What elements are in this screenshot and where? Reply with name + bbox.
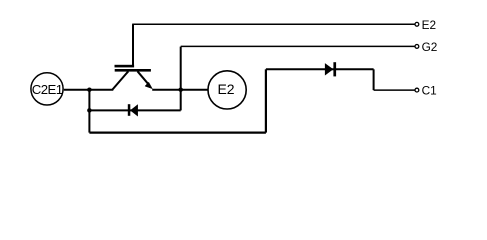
wire series diode branch bbox=[266, 68, 374, 70]
node C2E1 bbox=[31, 73, 63, 105]
wire C1 drop bbox=[373, 69, 375, 90]
wire E2 terminal lead bbox=[132, 23, 414, 25]
wire G2 vertical bbox=[180, 47, 182, 111]
svg-text:E2: E2 bbox=[217, 81, 234, 97]
wire collector segment bbox=[64, 89, 114, 91]
transistor Q2 IGBT emitter diagonal with arrow bbox=[138, 71, 153, 88]
diode D2 freewheel (cathode bar) bbox=[128, 104, 131, 116]
wire C1 terminal lead bbox=[374, 89, 415, 91]
node junction dot collector/left vertical bbox=[87, 87, 92, 92]
wire left vertical bbox=[88, 90, 90, 133]
transistor Q2 IGBT gate bar bbox=[115, 65, 135, 68]
svg-text:C2E1: C2E1 bbox=[32, 82, 63, 97]
transistor Q2 IGBT gate lead bbox=[132, 24, 134, 67]
terminal E2 bbox=[415, 18, 436, 32]
node junction dot diode wire bbox=[87, 108, 92, 113]
terminal C1 bbox=[415, 84, 437, 98]
transistor Q2 IGBT collector diagonal bbox=[113, 71, 129, 89]
svg-text:G2: G2 bbox=[422, 40, 438, 54]
wire right vertical riser bbox=[265, 69, 267, 132]
svg-text:E2: E2 bbox=[422, 18, 436, 32]
wire freewheel diode branch bbox=[89, 109, 180, 111]
wire emitter segment bbox=[152, 89, 207, 91]
wire bottom bus bbox=[89, 132, 266, 134]
diode D1 series (cathode bar) bbox=[333, 62, 336, 76]
wire G2 terminal lead bbox=[181, 45, 415, 47]
node E2 bbox=[208, 71, 246, 109]
svg-text:C1: C1 bbox=[422, 84, 437, 98]
diode D1 series (triangle) bbox=[325, 64, 333, 75]
terminal G2 bbox=[415, 40, 437, 54]
node junction dot emitter/G2 vertical bbox=[178, 87, 183, 92]
diode D2 freewheel (triangle) bbox=[131, 105, 138, 116]
transistor Q2 IGBT body bar bbox=[115, 69, 151, 72]
